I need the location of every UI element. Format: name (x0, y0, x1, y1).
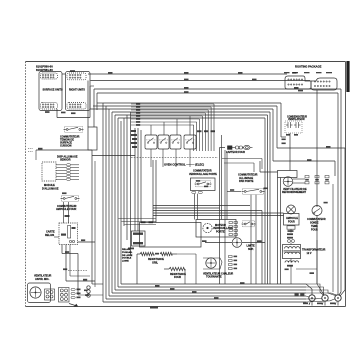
oven control switch 2 (158, 135, 169, 149)
resistance wire left vertical (136, 254, 138, 284)
wire label BK above banks (70, 70, 75, 72)
wire drop right of banks x90 (89, 86, 91, 118)
vent fan arrow (69, 304, 78, 307)
resistance four element (169, 267, 185, 270)
wire right drop from y106 (276, 106, 278, 148)
wire BK surface to routing pkg (88, 73, 287, 75)
cooling fan motor (283, 177, 293, 187)
wire bundle bottom bus x121 (121, 283, 306, 285)
temp probe wire down (316, 216, 318, 285)
ignition module pin 5 (67, 175, 71, 177)
wire right side drop x338 (337, 93, 339, 292)
relay wire corner h (62, 253, 78, 255)
door lock motor pin a1 (229, 222, 232, 224)
door lock motor pin b4 (234, 234, 237, 236)
routing pkg label 2 (293, 72, 298, 73)
wire label BK on y161 (307, 159, 312, 161)
control switch drop 3 (175, 149, 177, 167)
oven control dashed boundary (131, 157, 218, 159)
cooling fan pin col 3b (325, 182, 329, 184)
routing left connector pins row2 (288, 84, 303, 85)
svg-text:REFROIDISSEMENT: REFROIDISSEMENT (282, 191, 307, 194)
svg-text:ASPIR. MIC.: ASPIR. MIC. (35, 278, 50, 281)
control feed stub 2 (131, 106, 211, 108)
wire bundle vertical x124 (123, 118, 125, 226)
oven lamp connector (287, 226, 295, 229)
svg-text:SENSOR: SENSOR (60, 159, 71, 162)
wire label RD right of probe (324, 202, 328, 204)
wire right drop from y115 (267, 115, 269, 284)
wire label on control feed 7 (136, 121, 140, 123)
control feed drop 2 (210, 107, 212, 151)
door ignition switch right label (264, 188, 268, 190)
door lock motor pin b3 (234, 230, 237, 232)
wire label on y80.5 at x254 (252, 79, 257, 81)
svg-text:VENTILATEUR: VENTILATEUR (288, 118, 305, 121)
capteur four stub (220, 147, 226, 149)
left connector label (84, 290, 88, 292)
left bank top connector (41, 73, 58, 79)
bus wire label 1 (155, 285, 160, 287)
limite sup wire right (242, 242, 265, 244)
cooling fan pin col 2b (315, 182, 319, 184)
capteur step wire 1 (222, 158, 262, 160)
relay wire corner h3 (70, 275, 90, 277)
left bank bottom connector (41, 103, 58, 110)
terminal feed corner y284 (306, 284, 324, 295)
transformer lower coil (285, 261, 299, 263)
relay board drop wire 2 (65, 245, 67, 282)
svg-text:LIGNE: LIGNE (122, 261, 129, 263)
limite sup motor (232, 238, 242, 248)
terminal center dot L1 (311, 297, 313, 299)
cooling fan pin col 2a (315, 176, 319, 178)
control cluster blob 4 (131, 142, 137, 144)
terminal feed x317 to N (317, 284, 324, 295)
control cluster vertical 2 (137, 128, 139, 231)
routing pkg label 4 (316, 72, 322, 73)
svg-text:GRIL: GRIL (152, 261, 158, 264)
wire label BU left of ignition switch (230, 189, 234, 191)
control feed stub 7 (131, 121, 197, 123)
svg-text:SUP.: SUP. (248, 248, 254, 251)
wire bundle vertical x127 (126, 115, 128, 240)
transformer primary coil (285, 247, 300, 249)
convection fan bracket (203, 258, 222, 269)
right surface unit switch bank outline (66, 72, 91, 111)
control feed drop 1 (213, 104, 215, 151)
label on control verticals 2 (204, 130, 209, 132)
terminal stub above L1 (311, 289, 313, 295)
terminal feed under y302 (306, 299, 335, 302)
control feed stub 6 (131, 118, 200, 120)
fan housing right drop (280, 178, 282, 285)
wire bundle top horizontal 5 (115, 114, 268, 116)
wire bundle bottom bus 1 (103, 301, 306, 303)
resistance wire vertical x196 (195, 254, 197, 284)
control feed drop 8 (193, 125, 195, 151)
wire bundle bottom bus 2 (106, 298, 306, 300)
door lock motor pin a4 (229, 234, 232, 236)
right bank top connector (67, 73, 86, 80)
left bank bottom connector pins row1 (42, 104, 54, 105)
door lock micro switch (242, 221, 256, 227)
capteur step drop 1 (261, 159, 263, 170)
wire between bank tops (62, 73, 66, 75)
terminal feed corner y287 (306, 287, 324, 295)
bus wire label 3 (214, 297, 219, 299)
dashed wire to relay loop (68, 270, 88, 272)
grill element wire loop (140, 223, 202, 248)
wire lamp switch to relay a (63, 202, 65, 223)
vent fan pin 3 (71, 296, 75, 298)
control block bottom vertical x156 (155, 160, 157, 223)
vent fan motor (30, 287, 41, 298)
relay board drop wire 1 (61, 245, 63, 254)
control feed drop 4 (204, 113, 206, 151)
control feed drop 3 (207, 110, 209, 151)
door lock motor pin a3 (229, 230, 232, 232)
cooling fan pin col 1a (305, 176, 309, 178)
left mid bottom h x92 (92, 283, 103, 285)
terminal lug left (295, 293, 299, 296)
relay board inner blob 2 (72, 227, 76, 229)
resistance gril element (140, 252, 154, 255)
door lock switch (commutateur verrouillage porte) (195, 181, 212, 187)
svg-text:CUISSON: CUISSON (60, 145, 72, 148)
wire bundle left vertical 6 (117, 118, 119, 287)
convection fan pin label 2 (234, 260, 238, 262)
label on control verticals 3 (211, 130, 216, 132)
wire label on control feed 5 (136, 115, 140, 117)
control feed stub 8 (131, 124, 194, 126)
svg-text:AMPOULE: AMPOULE (286, 217, 298, 220)
door lock switch box (191, 178, 216, 191)
convection fan pin 1 (229, 256, 233, 258)
wire label BK above vent connector (63, 268, 67, 270)
ignition module pin wire 4 (56, 173, 66, 175)
relay wire vertical x78 (77, 254, 79, 296)
power relay box (132, 231, 146, 246)
bundle left extension 2 (93, 105, 106, 107)
cooling fan pin label 1 (305, 179, 309, 181)
svg-text:FOUR: FOUR (288, 221, 295, 224)
cooling fan pin label 3 (325, 179, 329, 181)
capacitor pin label 2 (294, 134, 298, 136)
routing pkg drop wire x317 (316, 90, 318, 207)
control feed stub 4 (131, 112, 205, 114)
svg-text:SURFACE UNITS: SURFACE UNITS (43, 89, 63, 92)
control block bottom vertical x153 (152, 160, 154, 223)
ignition module pin wire b5 (71, 175, 80, 177)
capacitor symbols (285, 121, 302, 133)
switch top stub 2 (163, 122, 165, 135)
right bank top connector pins row1 (69, 74, 81, 75)
wire label BK on probe drop (310, 272, 315, 274)
svg-text:VERROUILLAGE PORTE: VERROUILLAGE PORTE (189, 173, 217, 176)
power relay pins bottom (133, 242, 143, 244)
wire bundle top horizontal 3 (109, 108, 273, 110)
transformer lower label 1 (287, 265, 293, 267)
label on control verticals 1 (197, 130, 202, 132)
wire bundle left vertical 5 (114, 115, 116, 290)
wire drop x335 to fan pins (334, 161, 336, 176)
cooling fan pins drop (332, 184, 334, 292)
ignition module pin 4 (67, 172, 71, 174)
control cluster blob 5 (132, 146, 137, 148)
mid bus short wire 6 (119, 218, 157, 220)
routing right connector pins row1 (314, 81, 330, 82)
svg-text:OVEN CONTROL ——— (ELEC): OVEN CONTROL ——— (ELEC) (164, 162, 204, 166)
terminal center dot L2 (337, 297, 339, 299)
wire bundle bottom bus 4 (112, 292, 306, 294)
relay board inner relay (68, 226, 71, 239)
ignition module pin 1 (67, 164, 71, 166)
terminal stub below L1 (311, 301, 313, 305)
relay wire corner h2 (66, 280, 95, 282)
ignition module pin 6 (67, 178, 71, 180)
wire bundle vertical x130 (130, 112, 132, 255)
resistance gril lead right (172, 253, 177, 255)
terminal feed from x317 area (316, 240, 318, 284)
vent fan outline (28, 283, 51, 303)
terminal feed diagonal 1 (306, 284, 312, 289)
wire label on control feed 1 (136, 103, 140, 105)
wire into control cluster y155 (92, 155, 135, 157)
wire label BK on y74 at x240 (238, 72, 243, 74)
convection fan pin 4 (229, 268, 233, 270)
ignition module pin wire 1 (56, 164, 66, 166)
vertical wire x227 (226, 152, 228, 220)
control feed stub 1 (131, 103, 214, 105)
wire label on y89 at x295 (294, 87, 299, 89)
wire bundle top horizontal 4 (112, 111, 270, 113)
capteur step drop 2 (253, 163, 255, 172)
control cluster blob 2 (131, 134, 137, 136)
control cluster blob 3 (132, 138, 137, 140)
control switch drop 1 (150, 149, 152, 167)
mid bus wire 1 (153, 205, 250, 207)
terminal feed from x341 (339, 292, 341, 295)
vent fan pin label 2 (77, 293, 81, 295)
oven control switch 4 (wide) (184, 135, 196, 149)
mid bus wire 2 (153, 207, 220, 209)
wire bundle bottom bus 6 (118, 286, 306, 288)
wire label BK y281 (83, 279, 87, 281)
wire bundle bottom bus 3 (109, 295, 306, 297)
resistance gril right wire (177, 253, 196, 255)
convection fan pin 2 (229, 260, 233, 262)
ignition module pin 2 (67, 167, 71, 169)
relay board box (59, 223, 78, 245)
terminal tick L1 (309, 301, 311, 305)
wire label on y80.5 at x186 (184, 79, 189, 81)
terminal tick L2 (335, 301, 337, 305)
door lock motor pin a2 (229, 226, 232, 228)
wire y150 from left (36, 149, 92, 151)
terminal feed diagonal 5 (306, 296, 309, 297)
oven lamp switch wire label BK (62, 192, 67, 194)
vertical wire x225 (224, 150, 226, 284)
terminal feed from x338 (337, 292, 339, 295)
oven lamp switch (61, 195, 80, 201)
convection fan pin label 4 (234, 268, 238, 270)
door ignition wire left (227, 191, 241, 193)
wire label BK right of relay (81, 239, 85, 241)
door lock switch pin 2 (198, 191, 202, 193)
resistance gril mid label (155, 253, 159, 255)
convection fan pin label 3 (234, 264, 238, 266)
vent fan connector A (45, 289, 55, 300)
transformer core line 2 (284, 251, 301, 253)
oven lamp wire down (290, 229, 292, 232)
ignition module pin 3 (67, 170, 71, 172)
transformer box (283, 245, 301, 259)
wire drop x36 (35, 150, 37, 160)
wire label BK on loop top 2 (149, 222, 154, 224)
oven lamp stack circles (288, 240, 295, 243)
switch top stub 3 (176, 119, 178, 135)
wire to capacitor (281, 136, 286, 138)
door lock motor inner (206, 227, 208, 229)
terminal label blob 2 (317, 303, 322, 305)
svg-text:DE LIGNE: DE LIGNE (122, 255, 133, 257)
capteur step wire 2 (224, 162, 254, 164)
wire label BK right of limite (257, 240, 262, 242)
wire right drop from y112 (269, 112, 271, 284)
wire label BK near transformer drop (285, 269, 289, 271)
svg-text:RIGHT UNITS: RIGHT UNITS (69, 89, 85, 92)
convection fan motor (206, 258, 216, 268)
door ignition switch drop b (255, 195, 257, 284)
door lock switch label b (204, 186, 208, 188)
wire bundle top horizontal 1 (103, 102, 281, 104)
wire drop right of banks x88 (87, 81, 89, 128)
relay board left stub (54, 236, 59, 238)
terminal lug left 2 (300, 293, 304, 296)
mid bus short wire 7 (122, 221, 157, 223)
cooktop lamp switch (64, 126, 84, 132)
left mid vertical x92 (91, 150, 93, 284)
vent fan connector B circles (60, 289, 67, 301)
transformer drop (290, 265, 292, 284)
resistance wire right vertical (184, 269, 186, 284)
oven lamp stack label 3 (287, 237, 293, 239)
transformer bottom stub (290, 259, 292, 263)
door lock wire down b (197, 194, 199, 220)
wire bundle top horizontal 2 (106, 105, 277, 107)
wire label BK x66 y253 (65, 251, 69, 253)
control cluster vertical 3 (140, 130, 142, 223)
door lock motor box (196, 220, 236, 238)
capacitor drop label BU (282, 143, 286, 145)
routing package right connector (311, 78, 337, 90)
terminal feed corner y290 (306, 290, 336, 296)
svg-text:FOUR: FOUR (174, 276, 181, 279)
door lock wire down a (194, 194, 196, 220)
label below right bank bottom (71, 112, 76, 114)
limite sup wire left (205, 242, 232, 244)
oven lamp wire label 1 (288, 230, 294, 232)
door ignition switch drop a (250, 195, 252, 284)
wire R to right side long (94, 88, 341, 90)
door lock motor circle (203, 223, 212, 232)
temp probe switch inner (314, 209, 320, 214)
resistance gril lead left (137, 253, 140, 255)
wire bundle bottom bus 5 (115, 289, 306, 291)
terminal label blob 3 (330, 303, 335, 305)
cooling fan wire b (293, 182, 305, 184)
relay board inner circles (69, 240, 74, 242)
stub from bank area down x94 (93, 89, 95, 127)
control feed drop 5 (201, 116, 203, 151)
wire horizontal y161 (273, 160, 335, 162)
terminal tick N (322, 301, 324, 305)
control feed stub 5 (131, 115, 202, 117)
svg-text:DOUBLE: DOUBLE (122, 258, 132, 260)
wire lamp switch to relay b (68, 202, 70, 223)
svg-text:D'ALLUMAGE: D'ALLUMAGE (42, 187, 59, 190)
routing right connector pins row2 (314, 85, 330, 86)
terminal circle L1 (309, 295, 315, 301)
wire label on y89 at x186 (184, 87, 189, 89)
bus wire label 5 (170, 288, 175, 290)
oven lamp circle (287, 205, 296, 214)
mid bus wire 3 drop (261, 211, 263, 285)
resistance gril element 2 (160, 252, 172, 255)
control switch drop 4 (189, 149, 191, 167)
resistance four lead left (164, 268, 169, 270)
wire W surface to routing pkg right (91, 80, 311, 82)
vent fan pin 1 (71, 288, 75, 290)
wire label BK on y74 at x293 (292, 72, 297, 74)
left connector circles stack (87, 286, 90, 297)
control feed stub 3 (131, 109, 208, 111)
terminal feed corner y293 (306, 293, 337, 295)
svg-text:CAPTEUR FOUR: CAPTEUR FOUR (226, 151, 245, 154)
convection fan pin 3 (229, 264, 233, 266)
label below left bank bottom (45, 111, 50, 113)
wire drop left bank bottom (56, 109, 58, 118)
terminal center dot N (324, 297, 326, 299)
wire bundle left vertical 3 (108, 109, 110, 296)
cooling fan wire a (293, 178, 305, 180)
control feed drop 6 (199, 119, 201, 151)
capteur four sensor symbol (228, 145, 253, 149)
control cluster vertical 1 (134, 128, 136, 231)
vent fan pin label 1 (77, 289, 81, 291)
oven control switch 1 (145, 135, 157, 149)
left frame stub a (28, 148, 33, 150)
ignition module pin wire b1 (71, 164, 80, 166)
routing package left connector (285, 76, 311, 89)
control feed drop 7 (196, 122, 198, 151)
control switch drop 2 (162, 149, 164, 167)
wire right drop from y118 (264, 118, 266, 284)
left bank top connector pins row1 (42, 74, 54, 75)
wire bundle left vertical 4 (111, 112, 113, 293)
wire RD horizontal y148 (277, 147, 345, 149)
cooling fan pin label 2 (315, 179, 319, 181)
relay wire bottom h x78 (78, 294, 103, 296)
door lock motor pin b2 (234, 226, 237, 228)
svg-text:12 V: 12 V (307, 252, 312, 255)
ignition module pin wire b3 (71, 170, 80, 172)
transformer secondary coil (285, 252, 300, 254)
wire label on y93 at x186 (184, 91, 189, 93)
relay board right wire y242 (78, 241, 96, 243)
oven lamp label box (284, 214, 300, 226)
